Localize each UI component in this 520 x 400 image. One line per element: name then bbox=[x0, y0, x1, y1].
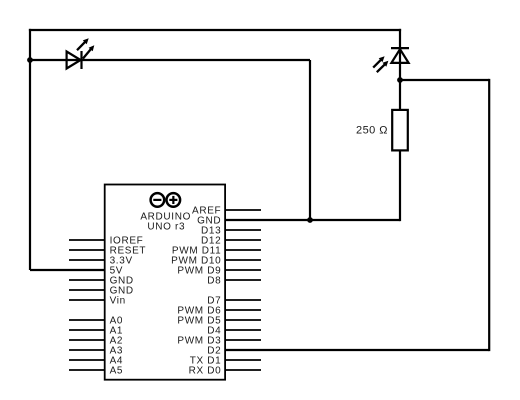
svg-text:D8: D8 bbox=[207, 275, 221, 286]
svg-text:A5: A5 bbox=[110, 365, 124, 376]
svg-text:RX D0: RX D0 bbox=[189, 365, 222, 376]
svg-text:Vin: Vin bbox=[110, 295, 126, 306]
svg-text:250 Ω: 250 Ω bbox=[356, 125, 388, 137]
svg-text:UNO r3: UNO r3 bbox=[147, 222, 185, 233]
